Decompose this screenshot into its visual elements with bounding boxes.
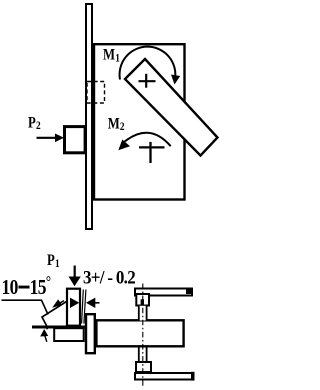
- dashed pocket: [87, 82, 105, 104]
- P2 block: [65, 127, 86, 153]
- dimension text 3 +/- 0.2: [83, 267, 136, 288]
- upright sheet: [67, 289, 80, 326]
- top bolt head: [136, 294, 149, 306]
- svg-text:10: 10: [2, 277, 18, 300]
- flange disc: [86, 314, 95, 353]
- angle text 10-15 deg: [2, 274, 51, 299]
- label P1: [47, 252, 60, 270]
- angle leader line: [2, 300, 49, 314]
- svg-text:3+/ - 0.2: 3+/ - 0.2: [83, 267, 136, 288]
- housing box: [94, 44, 185, 199]
- top bolt shank: [139, 306, 147, 321]
- moment M1 arc: [120, 47, 176, 80]
- sheet gauge lines: [82, 290, 86, 324]
- rotated tool: [125, 59, 218, 156]
- weld bevel face: [42, 302, 67, 330]
- P1 force arrow: [69, 266, 81, 287]
- bolt centerline: [142, 284, 144, 388]
- angle arrowhead upper: [52, 299, 64, 307]
- base bar top surface: [32, 326, 85, 329]
- M1 cross: [139, 74, 156, 88]
- top clamp arm: [135, 288, 193, 296]
- P2 force arrow: [37, 134, 65, 143]
- moment M1 arrowhead: [171, 75, 180, 85]
- angle arrowhead lower: [40, 329, 48, 342]
- bottom bolt shank: [139, 347, 147, 362]
- shaft body: [96, 320, 183, 346]
- label M2: [108, 115, 125, 133]
- moment M2 arrowhead: [118, 140, 130, 151]
- bottom clamp arm: [135, 372, 195, 381]
- base bar: [54, 328, 83, 341]
- label P2: [28, 114, 41, 132]
- moment M2 arc: [122, 133, 171, 146]
- vertical plate: [86, 4, 92, 229]
- thickness dim arrow right: [86, 298, 100, 308]
- bottom bolt head: [136, 362, 151, 372]
- M2 cross: [139, 142, 165, 163]
- thickness dim arrow left: [70, 298, 79, 308]
- label M1: [103, 46, 120, 65]
